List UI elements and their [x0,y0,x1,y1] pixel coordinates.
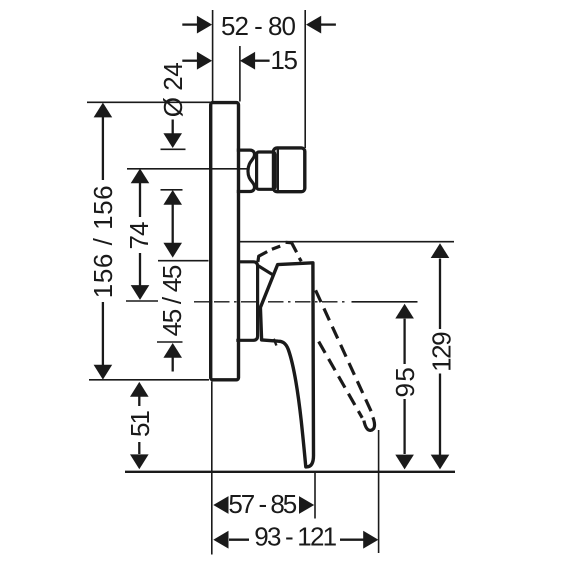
svg-text:93 - 121: 93 - 121 [254,522,336,552]
svg-text:15: 15 [270,45,297,75]
svg-text:74: 74 [124,222,154,249]
svg-text:156 / 156: 156 / 156 [88,185,118,298]
svg-text:129: 129 [427,332,457,372]
svg-text:45 / 45: 45 / 45 [157,265,187,336]
svg-text:57 - 85: 57 - 85 [228,489,296,519]
svg-text:Ø 24: Ø 24 [158,63,188,117]
svg-text:95: 95 [390,366,420,398]
svg-text:51: 51 [125,411,155,437]
svg-text:52 - 80: 52 - 80 [221,11,295,41]
